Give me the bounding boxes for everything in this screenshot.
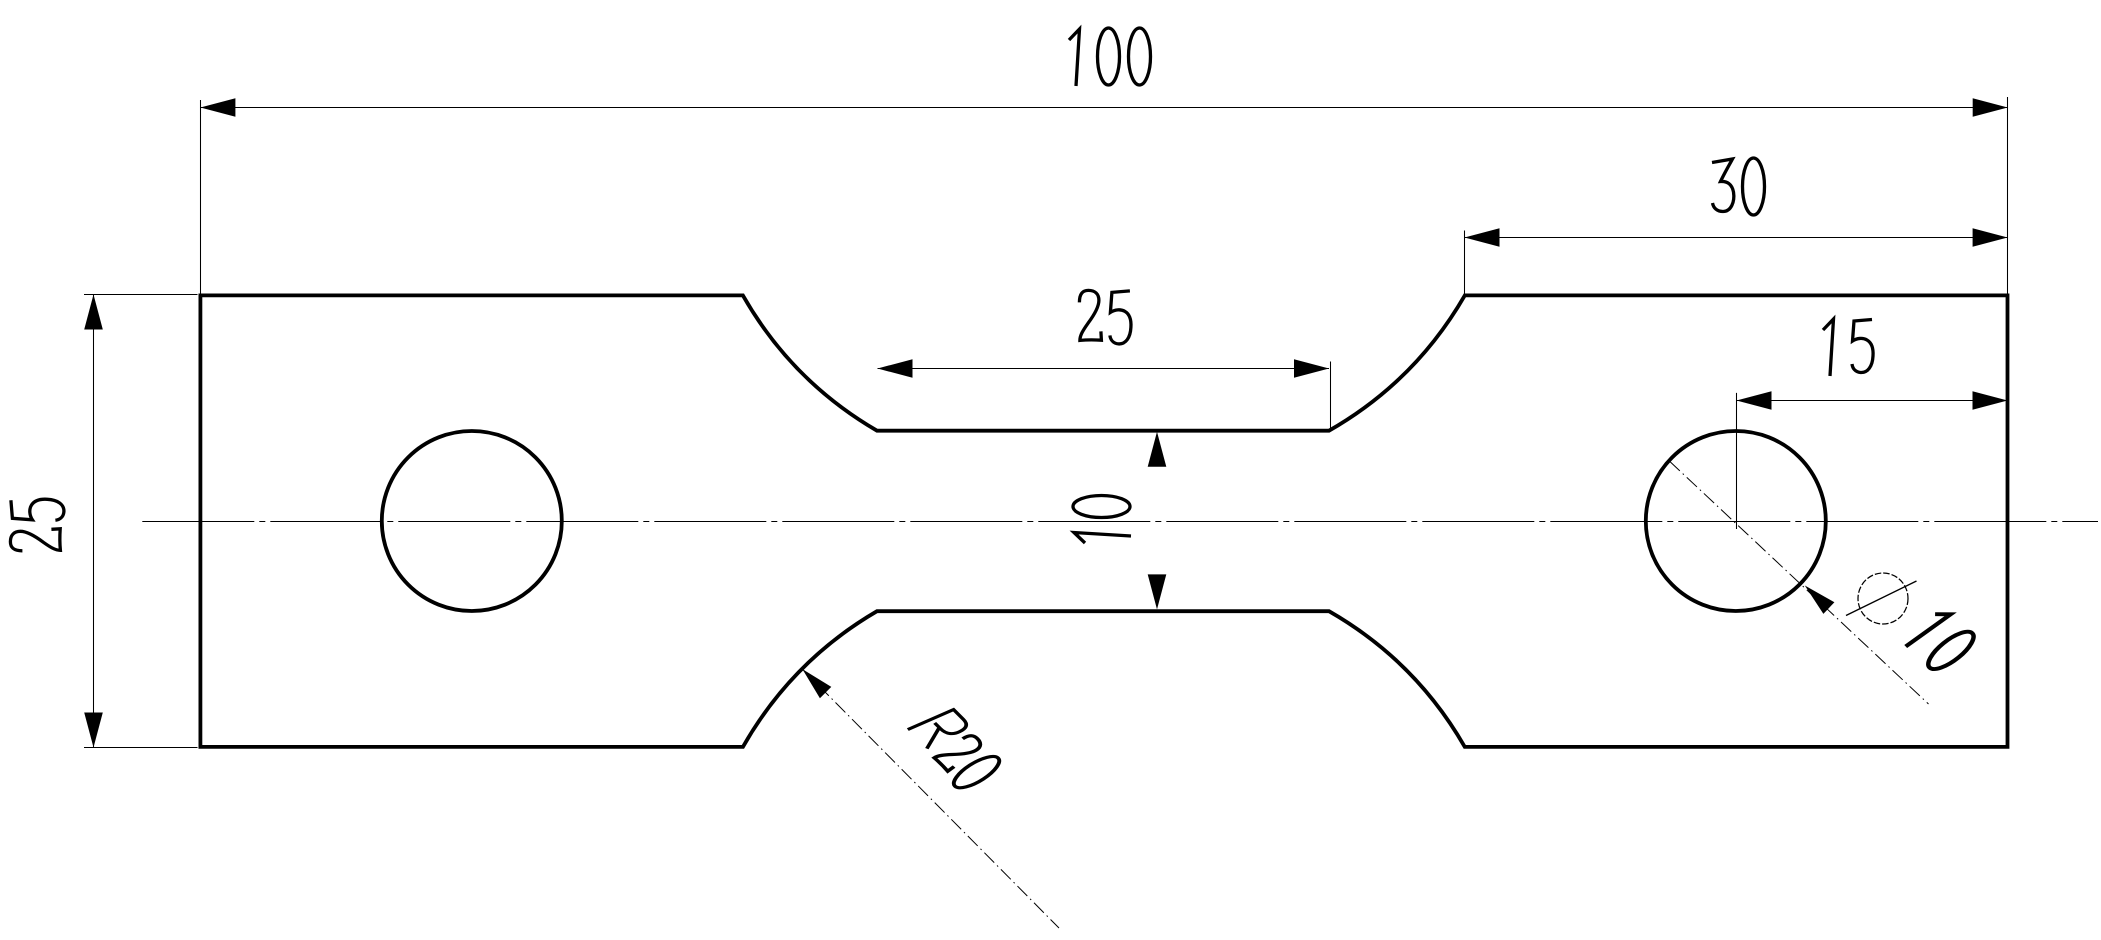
dim 100 text [1069, 29, 1080, 86]
dim 25 left line [93, 295, 95, 748]
dia10 symbol slash [1846, 581, 1917, 616]
left hole [382, 431, 562, 611]
dim 100 line [200, 107, 2007, 109]
dim 100 left arrow [200, 98, 235, 117]
dim 25 gauge text [1079, 290, 1101, 340]
dim 30 right arrow [1973, 228, 2008, 247]
R20 text [902, 704, 1007, 793]
dim 10 up arrow [1148, 432, 1167, 467]
dim 15 line [1737, 400, 2008, 402]
dim 30 extension [1464, 231, 1466, 295]
dia10 leader line [1670, 461, 1929, 704]
R20 arrow [802, 669, 831, 698]
dia10 symbol circle [1858, 573, 1908, 624]
dim 30 left arrow [1465, 228, 1500, 247]
dim 25 gauge left arrow [878, 359, 913, 378]
dim 100 left extension [200, 100, 202, 294]
dim 25 left bottom arrow [84, 713, 103, 748]
right hole [1646, 431, 1826, 611]
dia10 text [1901, 607, 1980, 675]
dim 25 left text [10, 499, 64, 551]
specimen outline [200, 295, 2007, 747]
dim 25 gauge right arrow [1294, 359, 1329, 378]
dim 10 text [1073, 496, 1131, 544]
dim 25 gauge extension [1330, 362, 1332, 430]
dim 15 right arrow [1973, 391, 2008, 410]
dim 100 right arrow [1973, 98, 2008, 117]
dim 25 left bottom extension [84, 747, 198, 749]
dim 15 left arrow [1737, 391, 1772, 410]
dim 30 line [1465, 237, 2008, 239]
dim 25 left top arrow [84, 295, 103, 330]
right hole vertical centerline [1736, 393, 1738, 529]
dim 25 left top extension [84, 294, 198, 296]
dim 10 down arrow [1148, 574, 1167, 609]
dim 30 text [1712, 159, 1734, 212]
dim 15 text [1823, 319, 1834, 376]
dia10 arrow [1805, 586, 1835, 614]
dim 25 gauge line [878, 368, 1330, 370]
horizontal centerline [142, 521, 2098, 523]
dim 100 right extension [2007, 97, 2009, 294]
R20 leader line [802, 669, 1059, 928]
